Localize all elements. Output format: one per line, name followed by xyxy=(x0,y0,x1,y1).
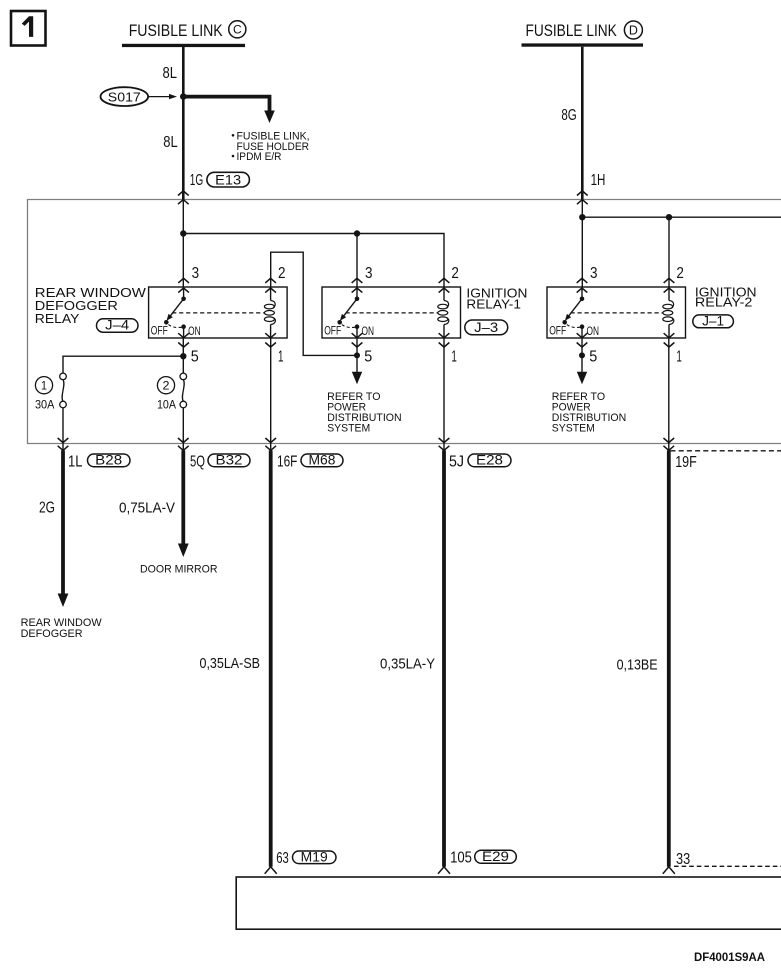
svg-text:FUSIBLE LINK: FUSIBLE LINK xyxy=(129,21,224,40)
svg-text:1H: 1H xyxy=(591,172,606,189)
svg-text:J–3: J–3 xyxy=(474,320,498,335)
svg-text:RELAY-2: RELAY-2 xyxy=(695,295,753,310)
svg-text:16F: 16F xyxy=(277,453,297,470)
svg-text:B28: B28 xyxy=(95,452,122,467)
svg-text:1: 1 xyxy=(41,380,47,392)
svg-text:C: C xyxy=(233,23,242,37)
svg-text:IPDM E/R: IPDM E/R xyxy=(237,151,282,163)
svg-text:E28: E28 xyxy=(476,452,503,467)
svg-text:2G: 2G xyxy=(39,499,55,516)
svg-text:1G: 1G xyxy=(190,172,204,189)
svg-text:2: 2 xyxy=(163,380,170,392)
svg-text:33: 33 xyxy=(676,851,690,868)
svg-text:DEFOGGER: DEFOGGER xyxy=(21,628,83,640)
svg-text:63: 63 xyxy=(276,850,289,867)
svg-text:0,35LA-SB: 0,35LA-SB xyxy=(200,655,261,672)
svg-text:SYSTEM: SYSTEM xyxy=(552,422,595,434)
svg-text:J–4: J–4 xyxy=(105,318,130,333)
svg-text:E29: E29 xyxy=(482,849,509,864)
svg-text:10A: 10A xyxy=(157,398,176,412)
svg-text:S017: S017 xyxy=(108,89,141,104)
svg-text:SYSTEM: SYSTEM xyxy=(327,422,370,434)
svg-text:0,13BE: 0,13BE xyxy=(617,656,658,673)
svg-text:RELAY: RELAY xyxy=(35,311,80,326)
svg-text:B32: B32 xyxy=(216,452,243,467)
svg-text:8G: 8G xyxy=(561,107,576,124)
svg-text:5Q: 5Q xyxy=(190,453,205,470)
svg-text:E13: E13 xyxy=(215,171,241,187)
svg-text:RELAY-1: RELAY-1 xyxy=(466,297,521,312)
svg-text:8L: 8L xyxy=(163,65,178,82)
svg-text:M68: M68 xyxy=(309,452,336,467)
svg-text:DF4001S9AA: DF4001S9AA xyxy=(694,952,765,964)
svg-text:8L: 8L xyxy=(163,134,178,151)
svg-text:105: 105 xyxy=(450,849,472,866)
svg-text:DOOR MIRROR: DOOR MIRROR xyxy=(140,563,218,575)
svg-text:D: D xyxy=(629,23,638,37)
svg-text:J–1: J–1 xyxy=(702,313,724,328)
svg-text:1L: 1L xyxy=(68,453,83,470)
svg-text:0,35LA-Y: 0,35LA-Y xyxy=(380,655,435,672)
svg-text:0,75LA-V: 0,75LA-V xyxy=(119,499,175,516)
svg-text:M19: M19 xyxy=(301,849,328,864)
svg-text:19F: 19F xyxy=(675,454,697,471)
svg-text:5J: 5J xyxy=(449,453,464,470)
svg-text:30A: 30A xyxy=(35,398,54,412)
svg-text:FUSIBLE LINK: FUSIBLE LINK xyxy=(526,21,618,40)
